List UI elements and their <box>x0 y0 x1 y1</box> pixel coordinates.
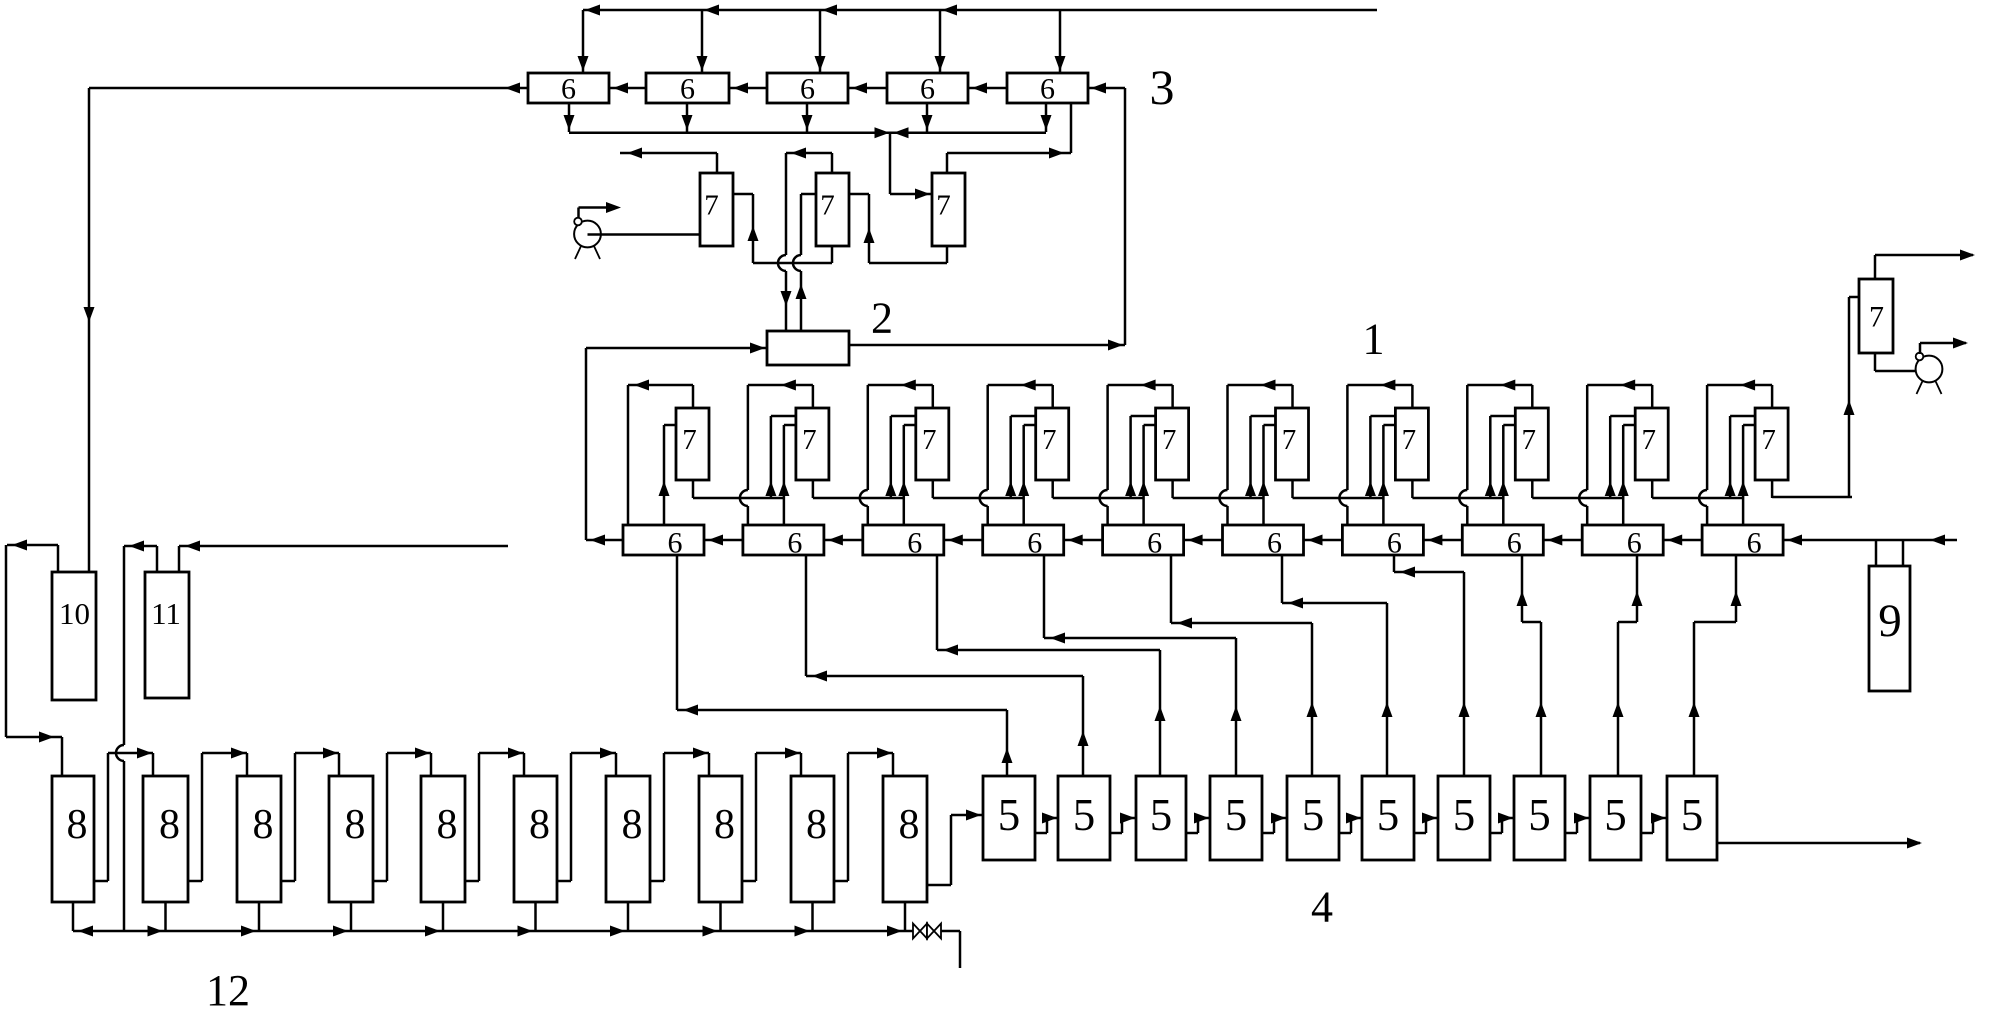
svg-text:6: 6 <box>680 73 695 106</box>
svg-text:5: 5 <box>1150 790 1173 840</box>
svg-text:10: 10 <box>59 596 90 631</box>
svg-text:7: 7 <box>682 424 697 456</box>
svg-text:6: 6 <box>1507 527 1522 560</box>
svg-text:7: 7 <box>1641 424 1656 456</box>
svg-text:8: 8 <box>529 802 550 848</box>
svg-text:11: 11 <box>151 596 181 631</box>
svg-text:8: 8 <box>806 802 827 848</box>
svg-text:8: 8 <box>714 802 735 848</box>
svg-text:6: 6 <box>787 527 802 560</box>
svg-text:8: 8 <box>253 802 274 848</box>
svg-text:3: 3 <box>1150 59 1175 115</box>
svg-text:7: 7 <box>802 424 817 456</box>
svg-text:7: 7 <box>704 190 719 222</box>
svg-text:8: 8 <box>622 802 643 848</box>
svg-text:5: 5 <box>1377 790 1400 840</box>
svg-text:7: 7 <box>1761 424 1776 456</box>
svg-text:7: 7 <box>1869 301 1884 334</box>
svg-text:7: 7 <box>820 190 835 222</box>
svg-text:5: 5 <box>1302 790 1325 840</box>
svg-text:4: 4 <box>1311 883 1333 932</box>
svg-text:6: 6 <box>1040 73 1055 106</box>
svg-text:8: 8 <box>437 802 458 848</box>
svg-text:6: 6 <box>1387 527 1402 560</box>
svg-text:5: 5 <box>1528 790 1551 840</box>
svg-text:1: 1 <box>1363 315 1385 364</box>
svg-text:7: 7 <box>936 190 951 222</box>
svg-text:7: 7 <box>1282 424 1297 456</box>
svg-text:6: 6 <box>668 527 683 560</box>
svg-text:8: 8 <box>899 802 920 848</box>
svg-text:5: 5 <box>1681 790 1704 840</box>
svg-text:6: 6 <box>1627 527 1642 560</box>
svg-text:6: 6 <box>561 73 576 106</box>
svg-text:7: 7 <box>922 424 937 456</box>
svg-text:5: 5 <box>1453 790 1476 840</box>
svg-text:5: 5 <box>1225 790 1248 840</box>
svg-text:7: 7 <box>1402 424 1417 456</box>
svg-text:6: 6 <box>1027 527 1042 560</box>
svg-text:6: 6 <box>920 73 935 106</box>
svg-text:7: 7 <box>1522 424 1537 456</box>
svg-text:12: 12 <box>206 966 250 1015</box>
svg-text:7: 7 <box>1162 424 1177 456</box>
svg-text:9: 9 <box>1878 595 1902 647</box>
svg-text:6: 6 <box>800 73 815 106</box>
svg-text:6: 6 <box>1267 527 1282 560</box>
svg-text:2: 2 <box>871 294 893 343</box>
svg-text:8: 8 <box>159 802 180 848</box>
svg-text:8: 8 <box>345 802 366 848</box>
svg-text:5: 5 <box>998 790 1021 840</box>
svg-text:5: 5 <box>1073 790 1096 840</box>
svg-text:6: 6 <box>1747 527 1762 560</box>
svg-text:6: 6 <box>1147 527 1162 560</box>
svg-text:7: 7 <box>1042 424 1057 456</box>
svg-text:8: 8 <box>67 802 88 848</box>
svg-text:5: 5 <box>1604 790 1627 840</box>
svg-text:6: 6 <box>907 527 922 560</box>
